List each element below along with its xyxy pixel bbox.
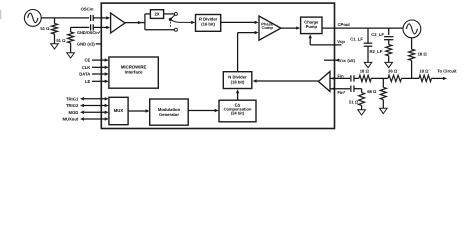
svg-text:18 Ω: 18 Ω [419,68,429,73]
svg-text:CE: CE [84,58,90,63]
svg-text:2X: 2X [154,12,159,17]
svg-text:Pump: Pump [306,24,318,29]
svg-text:51 Ω: 51 Ω [40,26,50,31]
svg-text:OSCin: OSCin [81,7,94,12]
svg-text:36 Ω: 36 Ω [388,68,398,73]
svg-text:(24 bit): (24 bit) [231,110,245,115]
svg-text:To Circuit: To Circuit [437,69,457,74]
svg-text:Vcp: Vcp [337,39,345,44]
svg-text:GND/OSCin*: GND/OSCin* [77,30,101,35]
svg-text:MUX: MUX [114,108,124,113]
svg-text:18 Ω: 18 Ω [418,52,428,57]
svg-text:Interface: Interface [125,69,144,74]
svg-text:C2_LF: C2_LF [371,32,384,37]
svg-text:MUXout: MUXout [62,117,78,122]
svg-text:Fin*: Fin* [337,90,345,95]
svg-text:(18 bit): (18 bit) [231,80,245,85]
svg-text:68 Ω: 68 Ω [367,89,377,94]
svg-text:(16 bit): (16 bit) [201,21,215,26]
svg-text:51 Ω: 51 Ω [56,38,66,43]
svg-text:DATA: DATA [79,72,90,77]
svg-text:Fin: Fin [337,73,344,78]
svg-text:TRIG2: TRIG2 [66,103,79,108]
svg-text:Comp: Comp [262,25,274,30]
svg-text:CPout: CPout [338,22,351,27]
svg-text:LE: LE [85,79,91,84]
svg-text:CLK: CLK [82,65,91,70]
svg-text:MOD: MOD [69,110,79,115]
svg-text:Vcc (x5): Vcc (x5) [339,58,356,63]
svg-text:GND (x3): GND (x3) [77,41,96,46]
svg-text:51 Ω: 51 Ω [349,100,359,105]
svg-text:TRIG1: TRIG1 [66,96,79,101]
svg-text:C1_LF: C1_LF [350,37,363,42]
svg-text:R2_LF: R2_LF [369,49,382,54]
svg-text:Generator: Generator [159,112,179,117]
svg-text:18 Ω: 18 Ω [360,68,370,73]
